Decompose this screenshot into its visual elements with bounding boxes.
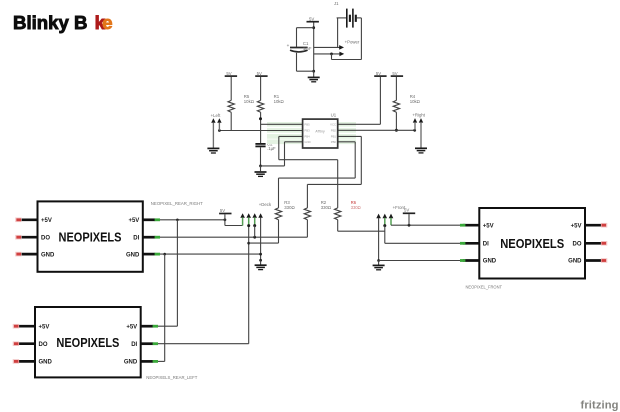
svg-text:PB1: PB1 <box>331 135 337 139</box>
svg-text:+5V: +5V <box>571 223 582 229</box>
svg-text:J1: J1 <box>334 1 339 6</box>
svg-text:GND: GND <box>483 259 497 265</box>
wire U1 pin1 right to 5V <box>338 123 381 125</box>
wire +5V to front box <box>391 224 463 227</box>
ground (deck) <box>255 260 267 269</box>
svg-text:DI: DI <box>483 242 489 248</box>
box2 pin +5V right <box>126 324 158 330</box>
svg-text:5V: 5V <box>404 208 409 213</box>
svg-text:DO: DO <box>573 242 582 248</box>
power flag 5V (pin1 right) <box>374 71 386 124</box>
wire cap top branch <box>297 27 314 29</box>
neopixel module box2 NEOPIXELS_REAR_LEFT <box>35 307 141 377</box>
wire flag to rails <box>312 23 315 73</box>
svg-text:NEOPIXELS: NEOPIXELS <box>56 336 119 350</box>
capacitor C2 <box>255 144 265 167</box>
svg-text:DI: DI <box>131 342 137 348</box>
wire U1 pin1 left <box>261 123 303 125</box>
box1 pin DI right <box>133 235 160 241</box>
svg-text:+5V: +5V <box>128 218 139 224</box>
node arrow front DI <box>383 214 388 244</box>
resistor R6 (mid right) <box>335 208 385 231</box>
svg-text:5V: 5V <box>392 71 397 76</box>
neopixel module box1 NEOPIXEL_REAR_RIGHT <box>38 201 143 271</box>
wire U1 pin4 right to R mid <box>279 142 356 208</box>
wire GND to front box <box>379 260 463 262</box>
node arrow front gnd <box>376 214 381 262</box>
svg-text:ATtiny: ATtiny <box>315 130 325 134</box>
svg-text:DO: DO <box>41 235 50 241</box>
node arrow deck 4 (+Deck) <box>258 213 263 261</box>
label R4 10k <box>410 94 421 104</box>
ground (front) <box>373 261 385 270</box>
svg-text:GND: GND <box>39 360 53 366</box>
battery J1 <box>334 1 361 28</box>
svg-text:DO: DO <box>39 342 48 348</box>
svg-text:NEOPIXEL_REAR_RIGHT: NEOPIXEL_REAR_RIGHT <box>151 201 203 206</box>
svg-text:GND: GND <box>304 140 310 144</box>
logo Blinky Bike <box>13 12 113 33</box>
svg-text:PB5: PB5 <box>304 122 310 126</box>
resistor R1 <box>257 77 263 143</box>
box3 pin GND right <box>568 258 607 265</box>
box1 pin +5V right <box>128 218 160 224</box>
node arrow deck 3 <box>252 213 257 237</box>
box2 pin GND right <box>124 360 158 366</box>
wire U1 pin3 left to R2 <box>279 136 338 208</box>
wire U1 pin2 right to +Right <box>338 129 416 132</box>
resistor R5 <box>228 77 234 131</box>
box3 pin GND left <box>460 259 497 265</box>
svg-text:GND: GND <box>126 252 140 258</box>
svg-text:+Deck: +Deck <box>259 202 272 207</box>
svg-text:VCC: VCC <box>330 122 336 126</box>
resistor R4 <box>393 77 399 132</box>
box3 pin +5V right <box>571 223 608 230</box>
box1 pin GND right <box>126 252 160 258</box>
svg-text:NEOPIXELS: NEOPIXELS <box>59 230 122 244</box>
box1 pin DO left <box>15 235 50 242</box>
node +Power arrow upper <box>314 45 344 50</box>
power flag 5V (R4) <box>391 71 403 76</box>
ground (C2) <box>255 166 267 177</box>
svg-text:10kΩ: 10kΩ <box>244 99 255 104</box>
node +Power arrow lower <box>314 52 345 57</box>
svg-text:+Power: +Power <box>345 40 360 45</box>
svg-text:NEOPIXELS: NEOPIXELS <box>500 237 564 251</box>
wire +5V box1 to flag <box>158 218 226 326</box>
box3 pin DO right <box>573 241 608 248</box>
svg-text:e: e <box>102 12 112 33</box>
svg-text:PB3: PB3 <box>304 129 310 133</box>
box1 pin GND left <box>15 252 55 258</box>
svg-text:GND: GND <box>568 259 582 265</box>
svg-text:PB2: PB2 <box>331 129 337 133</box>
ground (+Left) <box>207 148 219 153</box>
svg-text:10kΩ: 10kΩ <box>274 99 285 104</box>
svg-text:Blinky B: Blinky B <box>13 12 88 33</box>
label R2 330 <box>321 200 332 210</box>
svg-text:GND: GND <box>124 360 138 366</box>
ground (power) <box>308 71 320 82</box>
svg-text:NEOPIXELS_REAR_LEFT: NEOPIXELS_REAR_LEFT <box>146 375 197 380</box>
capacitor C1 <box>287 28 314 71</box>
label R6 330 (red) <box>351 200 361 210</box>
wire DI rear-right (box1) <box>160 236 307 239</box>
power flag 5V (R5) <box>225 71 237 76</box>
svg-text:GND: GND <box>41 252 55 258</box>
svg-text:+Right: +Right <box>412 113 425 118</box>
neopixel module box3 NEOPIXEL_FRONT <box>479 208 585 279</box>
svg-text:+5V: +5V <box>41 218 52 224</box>
node +Right <box>412 113 425 148</box>
svg-text:NEOPIXEL_FRONT: NEOPIXEL_FRONT <box>466 285 503 290</box>
box2 pin +5V left <box>13 324 50 331</box>
power flag 5V (deck) <box>219 208 243 226</box>
svg-text:+5V: +5V <box>39 324 50 330</box>
svg-text:5V: 5V <box>220 208 225 213</box>
wire gnd to pin4 riser <box>261 165 285 167</box>
svg-text:+: + <box>287 43 290 48</box>
node arrow deck 1 <box>240 213 245 225</box>
box3 pin DI left <box>460 242 489 248</box>
node arrow front +5V <box>389 214 394 226</box>
svg-text:10kΩ: 10kΩ <box>410 99 421 104</box>
resistor R2 (mid center) <box>304 208 310 237</box>
node +Left <box>211 113 222 148</box>
label C2 <box>267 142 276 152</box>
wire minus return loop <box>332 54 362 60</box>
wire DI rear-left (box2) <box>158 226 279 344</box>
svg-text:5V: 5V <box>226 71 231 76</box>
resistor R3 (mid left) <box>275 208 281 243</box>
svg-text:5V: 5V <box>376 71 381 76</box>
svg-text:PB4: PB4 <box>304 135 310 139</box>
label R1 10k <box>274 94 285 104</box>
box1 pin +5V left <box>15 218 52 225</box>
wire battery plus down <box>337 18 339 48</box>
svg-text:+5V: +5V <box>483 223 494 229</box>
node arrow deck 2 <box>246 213 251 227</box>
box2 pin DI right <box>131 342 158 348</box>
svg-text:+5V: +5V <box>126 324 137 330</box>
svg-text:1mF: 1mF <box>303 46 312 51</box>
wire GND box1/box2 <box>158 253 261 362</box>
svg-text:fritzing: fritzing <box>581 399 619 411</box>
box3 pin +5V left <box>460 223 494 229</box>
svg-text:330Ω: 330Ω <box>284 205 295 210</box>
svg-text:U1: U1 <box>331 113 337 118</box>
label C1 <box>303 41 312 51</box>
svg-text:PB0: PB0 <box>331 140 337 144</box>
svg-text:DI: DI <box>133 235 139 241</box>
wire DI to front box <box>385 242 463 244</box>
power flag 5V (front) <box>403 208 415 226</box>
wire U1 pin4 left to gnd <box>285 142 303 166</box>
ground (+Right) <box>415 148 427 153</box>
label R5 10k <box>244 94 255 104</box>
svg-text:330Ω: 330Ω <box>321 205 332 210</box>
svg-text:.1µF: .1µF <box>267 146 276 151</box>
svg-text:330Ω: 330Ω <box>351 205 361 210</box>
box2 pin GND left <box>13 359 53 366</box>
wire U1 pin3 right to R mid <box>307 136 361 208</box>
op-amp U1 <box>303 113 338 148</box>
net highlight bands U1 <box>267 122 356 144</box>
wire U1 pin2 left <box>218 129 303 132</box>
wire battery minus down <box>360 18 362 60</box>
svg-text:5V: 5V <box>257 71 262 76</box>
power flag 5V (top) <box>307 17 319 22</box>
power flag 5V (R1) <box>255 71 267 76</box>
svg-text:+Left: +Left <box>211 113 221 118</box>
label R3 330 <box>284 200 295 210</box>
box2 pin DO left <box>13 341 48 348</box>
